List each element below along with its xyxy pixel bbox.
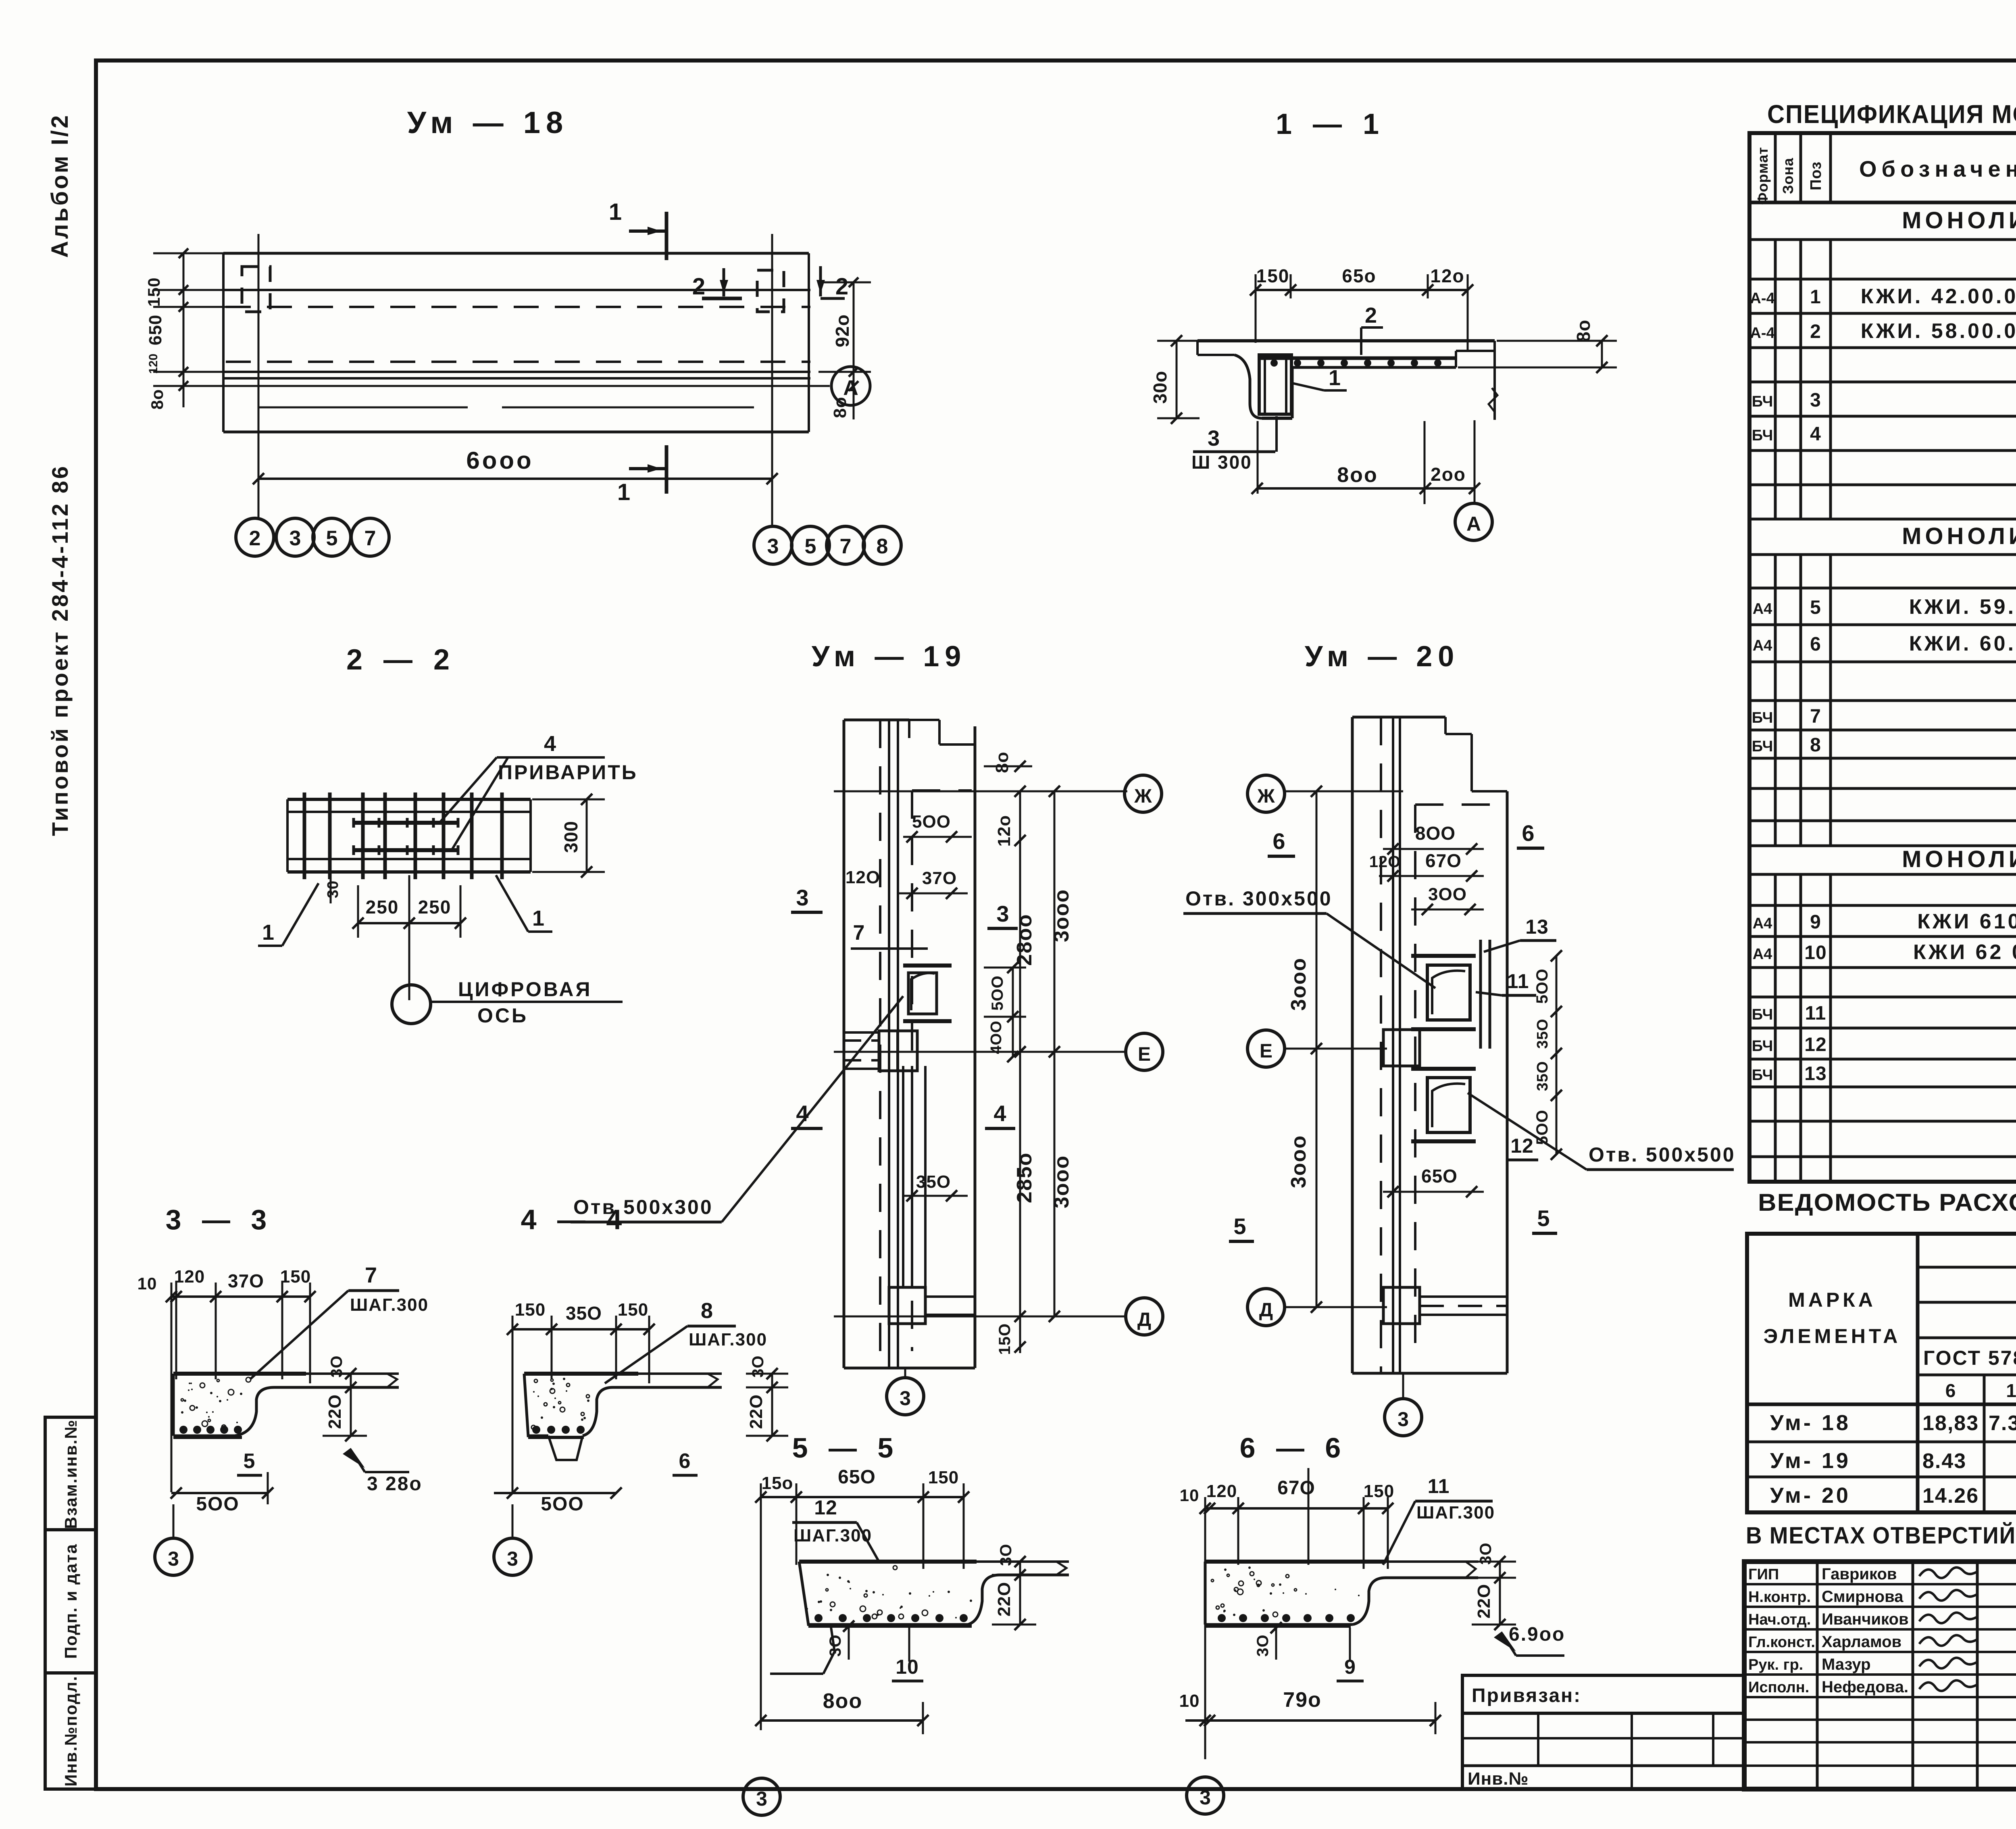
svg-text:5: 5 [1537, 1205, 1549, 1231]
svg-text:67O: 67O [1277, 1477, 1315, 1499]
svg-text:А4: А4 [1753, 915, 1772, 932]
sidebar label project 284-4-112 86 [47, 464, 73, 836]
svg-text:В МЕСТАХ ОТВЕРСТИЙ СЕТКИ ВЫР: В МЕСТАХ ОТВЕРСТИЙ СЕТКИ ВЫРЕЗАТЬ. [1746, 1522, 2016, 1549]
svg-text:8: 8 [701, 1299, 713, 1323]
dims 800 200 [1252, 420, 1480, 504]
otv 300x500 label [1183, 887, 1435, 988]
section mark 2 right [816, 266, 848, 300]
svg-text:8OO: 8OO [1415, 823, 1456, 844]
svg-text:67O: 67O [1425, 850, 1462, 871]
svg-text:8: 8 [877, 535, 888, 558]
signatures squiggles [1919, 1567, 1978, 1691]
cage labels 1 [258, 883, 319, 946]
svg-text:ВЕДОМОСТЬ РАСХОДА СТАЛИ Н: ВЕДОМОСТЬ РАСХОДА СТАЛИ НА ЭЛЕМЕНТ, КГ. [1758, 1189, 2016, 1216]
svg-text:Привязан:: Привязан: [1472, 1685, 1581, 1706]
svg-text:ЭЛЕМЕНТА: ЭЛЕМЕНТА [1764, 1325, 1901, 1347]
dims 30 220 s33 [323, 1355, 367, 1441]
svg-text:150: 150 [1256, 265, 1290, 286]
opening 300x500 [1411, 940, 1490, 1049]
svg-text:8oo: 8oo [823, 1689, 862, 1713]
svg-text:Обозначение: Обозначение [1859, 156, 2016, 181]
dimension 6000 [253, 447, 778, 484]
dim 800 s55 [755, 1689, 929, 1734]
svg-text:3: 3 [1397, 1408, 1409, 1431]
svg-text:Исполн.: Исполн. [1748, 1679, 1809, 1696]
svg-text:3ooo: 3ooo [1287, 1135, 1310, 1188]
svg-text:5 — 5: 5 — 5 [792, 1432, 900, 1464]
svg-text:А: А [1466, 513, 1481, 535]
cage outline 2-2 [287, 799, 531, 872]
otv 500x500 label [1468, 1093, 1736, 1170]
svg-text:30: 30 [325, 880, 342, 898]
slab 6-6 fill [1211, 1566, 1360, 1622]
section labels 5 [1229, 1205, 1557, 1241]
axis circle s66 [1187, 1730, 1224, 1814]
label 5 s33 [237, 1449, 262, 1475]
svg-text:10: 10 [896, 1656, 919, 1678]
svg-text:БЧ: БЧ [1752, 738, 1773, 755]
svg-text:ЦИФРОВАЯ: ЦИФРОВАЯ [458, 978, 592, 1001]
spec row pos 8 [1752, 733, 2016, 756]
axis line 2 vertical [258, 234, 260, 518]
svg-text:2 — 2: 2 — 2 [346, 644, 456, 676]
wall Um-19 outline [844, 720, 975, 1368]
steel row Ум- 20 [1770, 1483, 2016, 1508]
svg-text:1: 1 [1810, 286, 1821, 308]
label 11 [1476, 970, 1536, 995]
svg-text:5OO: 5OO [1533, 968, 1551, 1003]
svg-text:6: 6 [1272, 828, 1285, 854]
svg-text:БЧ: БЧ [1752, 1038, 1773, 1055]
svg-text:120: 120 [1206, 1481, 1237, 1501]
svg-text:Е: Е [1260, 1041, 1272, 1062]
spec row pos 1 [1750, 285, 2016, 308]
svg-text:Д: Д [1259, 1299, 1273, 1321]
svg-text:7: 7 [365, 1263, 377, 1287]
svg-text:КЖИ 62 00 0: КЖИ 62 00 0 [1913, 941, 2016, 964]
svg-text:1: 1 [532, 906, 544, 930]
title 1-1 [1276, 108, 1385, 140]
svg-text:МОНОЛИТНЫЙ УЧАСТОК УМ-19: МОНОЛИТНЫЙ УЧАСТОК УМ-19 [1902, 523, 2016, 549]
svg-text:3: 3 [1200, 1786, 1211, 1809]
svg-text:Харламов: Харламов [1822, 1633, 1901, 1651]
svg-text:3 28o: 3 28o [367, 1473, 423, 1495]
svg-text:120: 120 [147, 354, 160, 374]
svg-text:2: 2 [1810, 321, 1821, 342]
svg-text:3ooo: 3ooo [1050, 1155, 1073, 1208]
svg-text:ГИП: ГИП [1748, 1566, 1779, 1583]
cage bars 2-2 [304, 792, 502, 879]
spec row pos 11 [1752, 1003, 2016, 1024]
title 4-4 [521, 1204, 629, 1235]
svg-text:А4: А4 [1753, 946, 1772, 963]
svg-text:7: 7 [1810, 706, 1821, 727]
svg-text:Инв.№: Инв.№ [1468, 1769, 1529, 1789]
svg-text:3: 3 [996, 901, 1009, 926]
svg-text:7: 7 [840, 535, 852, 558]
svg-text:2: 2 [692, 273, 705, 300]
svg-text:5: 5 [805, 535, 816, 558]
svg-text:МОНОЛИТНЫЙ УЧАСТОК УМ-20: МОНОЛИТНЫЙ УЧАСТОК УМ-20 [1902, 846, 2016, 872]
spec header labels [1754, 147, 2016, 205]
label 7 shag300 s33 [250, 1263, 429, 1379]
label 10 s55 [892, 1626, 923, 1681]
svg-text:Зона: Зона [1780, 158, 1796, 194]
svg-text:МОНОЛИТНЫЙ УЧАСТОК УМ-18: МОНОЛИТНЫЙ УЧАСТОК УМ-18 [1902, 207, 2016, 234]
svg-text:КЖИ 6100 0: КЖИ 6100 0 [1917, 910, 2016, 933]
svg-text:8.43: 8.43 [1922, 1449, 1966, 1473]
svg-text:Рук. гр.: Рук. гр. [1748, 1656, 1803, 1673]
svg-text:ОСЬ: ОСЬ [477, 1004, 528, 1027]
svg-text:15O: 15O [996, 1323, 1014, 1355]
svg-text:150: 150 [618, 1300, 648, 1320]
svg-text:150: 150 [280, 1267, 311, 1287]
left dimension chain [144, 248, 226, 410]
title 6-6 [1240, 1432, 1347, 1464]
svg-text:3: 3 [289, 527, 301, 550]
svg-text:Мазур: Мазур [1822, 1656, 1871, 1673]
svg-text:12O: 12O [1369, 853, 1401, 871]
svg-text:4: 4 [1810, 423, 1821, 445]
axis D [834, 1298, 1163, 1335]
svg-text:4: 4 [993, 1101, 1006, 1126]
title 3-3 [166, 1204, 273, 1235]
svg-text:7.38: 7.38 [1989, 1412, 2016, 1435]
svg-text:6ooo: 6ooo [466, 447, 533, 474]
svg-text:3: 3 [796, 885, 808, 910]
svg-text:3: 3 [507, 1547, 518, 1570]
svg-text:БЧ: БЧ [1752, 709, 1773, 726]
svg-text:285o: 285o [1013, 1152, 1036, 1203]
svg-text:3O: 3O [997, 1543, 1015, 1566]
dims 500 350 350 500 [1533, 950, 1562, 1160]
section labels 6 [1268, 820, 1544, 856]
dashed opening right [757, 270, 784, 312]
svg-text:150: 150 [928, 1468, 959, 1487]
svg-text:12: 12 [1804, 1034, 1826, 1055]
svg-text:3O: 3O [827, 1634, 844, 1656]
spec table title [1767, 100, 2016, 129]
svg-text:Альбом I/2: Альбом I/2 [47, 113, 73, 258]
svg-text:БЧ: БЧ [1752, 1006, 1773, 1023]
svg-text:12: 12 [1510, 1135, 1534, 1157]
dim 500 s44 [494, 1487, 622, 1515]
svg-text:3: 3 [900, 1387, 911, 1410]
slab 5-5 fill [806, 1566, 972, 1622]
dim 300 cage [532, 794, 605, 878]
svg-text:65O: 65O [1421, 1166, 1458, 1187]
svg-text:10: 10 [1804, 942, 1826, 964]
spec row pos 6 [1753, 632, 2016, 655]
dims 30 220 s66 [1472, 1542, 1516, 1630]
section labels 4 [791, 1101, 1015, 1128]
level 3280 s33 [343, 1448, 423, 1495]
block at D axis um20 [1383, 1287, 1507, 1324]
svg-text:4OO: 4OO [988, 1020, 1005, 1054]
svg-text:ШАГ.300: ШАГ.300 [350, 1295, 429, 1315]
svg-text:Взам.инв.№: Взам.инв.№ [61, 1419, 80, 1529]
title 2-2 [346, 644, 456, 676]
svg-text:1: 1 [1329, 366, 1341, 390]
dims 800 670 300 [1369, 823, 1484, 915]
spec row t18 [1902, 207, 2016, 234]
section mark 2 left [692, 268, 742, 300]
svg-text:ШАГ.300: ШАГ.300 [1416, 1503, 1495, 1522]
inner dashed edge [912, 790, 972, 1351]
bottom axis circle 3 um19 [887, 1368, 924, 1415]
svg-text:5: 5 [244, 1449, 255, 1473]
svg-text:КЖИ. 60.00.0: КЖИ. 60.00.0 [1909, 632, 2016, 655]
svg-text:Отв. 300х500: Отв. 300х500 [1185, 887, 1333, 910]
spec row t20 [1902, 846, 2016, 872]
svg-text:3O: 3O [1477, 1542, 1495, 1564]
axis circle A s11 [1455, 488, 1492, 540]
svg-text:13: 13 [1804, 1063, 1826, 1084]
spec row pos 10 [1753, 941, 2016, 964]
svg-text:Д: Д [1137, 1309, 1151, 1331]
svg-text:Нефедова.: Нефедова. [1822, 1678, 1908, 1696]
label 2 [1361, 303, 1383, 355]
svg-text:11: 11 [1507, 970, 1529, 993]
svg-text:22O: 22O [746, 1394, 766, 1429]
svg-text:Ум — 20: Ум — 20 [1305, 640, 1460, 673]
svg-text:12O: 12O [846, 868, 880, 887]
dim 150 [996, 1316, 1026, 1355]
svg-text:Ж: Ж [1134, 786, 1152, 807]
label 7 [851, 921, 928, 949]
axis Zh [834, 775, 1162, 812]
section 1-1 slab outline [1198, 341, 1497, 420]
spec row pos 9 [1753, 910, 2016, 933]
spec row pos 7 [1752, 706, 2016, 727]
svg-text:92o: 92o [832, 314, 853, 347]
svg-text:4 — 4: 4 — 4 [521, 1204, 629, 1235]
svg-text:65O: 65O [838, 1466, 876, 1488]
title Um-18 [407, 106, 569, 140]
axis line 3 vertical right [771, 234, 773, 526]
dims 150 650 150 s55 [755, 1466, 969, 1730]
axis circle s33 [155, 1504, 192, 1575]
svg-text:4: 4 [544, 732, 556, 756]
svg-text:А4: А4 [1753, 601, 1772, 617]
svg-text:5: 5 [1810, 597, 1821, 618]
svg-text:8o: 8o [992, 751, 1012, 773]
label 8 shag300 s44 [605, 1299, 767, 1383]
steel row Ум- 18 [1770, 1411, 2016, 1435]
svg-text:6.9oo: 6.9oo [1509, 1624, 1565, 1645]
svg-text:Ш 300: Ш 300 [1191, 452, 1252, 473]
svg-text:35O: 35O [916, 1172, 951, 1192]
svg-text:КЖИ. 59.00.0: КЖИ. 59.00.0 [1909, 595, 2016, 619]
dims 30 220 s44 [746, 1355, 788, 1441]
svg-text:А-4: А-4 [1750, 325, 1774, 342]
svg-text:8o: 8o [1573, 319, 1594, 342]
label 9 s66 [1337, 1628, 1364, 1681]
svg-text:3O: 3O [1254, 1634, 1272, 1656]
spec row pos 5 [1753, 595, 2016, 619]
axis line A [173, 367, 870, 405]
right dimension chain [818, 277, 871, 419]
svg-text:13: 13 [1525, 916, 1549, 938]
svg-text:12: 12 [814, 1496, 837, 1519]
axis D um20 [1248, 1289, 1387, 1326]
svg-text:150: 150 [1364, 1481, 1394, 1501]
spec table grid [1749, 133, 2016, 1182]
spec row pos 4 [1752, 423, 2016, 445]
wall bars below E [903, 1066, 925, 1287]
title Um-19 [812, 640, 967, 673]
svg-text:35O: 35O [566, 1303, 602, 1324]
binding box [1462, 1675, 1744, 1789]
svg-text:35O: 35O [1534, 1019, 1551, 1049]
dim 500 s33 [171, 1472, 273, 1515]
svg-text:Смирнова: Смирнова [1822, 1588, 1904, 1606]
svg-text:Инв.№подл.: Инв.№подл. [61, 1675, 80, 1786]
svg-text:ГОСТ 5781-82*: ГОСТ 5781-82* [1923, 1347, 2016, 1369]
svg-text:150: 150 [144, 277, 163, 307]
svg-text:БЧ: БЧ [1752, 1067, 1773, 1084]
svg-text:2: 2 [249, 527, 261, 550]
spec row pos 12 [1752, 1032, 2016, 1056]
svg-text:КЖИ. 58.00.0: КЖИ. 58.00.0 [1861, 319, 2016, 343]
slab 4-4 fill [531, 1378, 589, 1434]
label 3 with Ш300 [1191, 416, 1277, 494]
svg-text:3ooo: 3ooo [1050, 889, 1073, 942]
section labels 3 [791, 885, 1018, 928]
svg-text:8o: 8o [830, 396, 850, 418]
svg-text:А4: А4 [1753, 637, 1772, 654]
wall Um-20 outline [1352, 717, 1507, 1373]
dims 3000 3000 [1049, 786, 1073, 1322]
svg-text:8oo: 8oo [1337, 463, 1378, 487]
svg-text:Иванчиков: Иванчиков [1822, 1610, 1909, 1628]
svg-text:3O: 3O [749, 1355, 767, 1377]
title Um-20 [1305, 640, 1460, 673]
svg-text:250: 250 [418, 897, 452, 918]
axis circles 3578 [754, 526, 901, 564]
svg-text:КЖИ. 42.00.0: КЖИ. 42.00.0 [1861, 285, 2016, 308]
dims 250 250 [325, 872, 466, 1000]
svg-text:9: 9 [1810, 911, 1821, 933]
svg-text:Ум- 19: Ум- 19 [1770, 1449, 1851, 1473]
slab 6-6 outline [1205, 1562, 1478, 1626]
svg-text:14.26: 14.26 [1922, 1484, 1979, 1508]
svg-text:8: 8 [1810, 734, 1821, 756]
steel table grid [1747, 1234, 2016, 1512]
svg-text:10: 10 [1179, 1691, 1200, 1711]
axis circle s44 [494, 1504, 531, 1575]
svg-text:БЧ: БЧ [1752, 427, 1773, 444]
svg-text:Е: Е [1138, 1044, 1151, 1065]
sidebar label Album I/2 [47, 113, 73, 258]
svg-text:3O: 3O [328, 1355, 346, 1377]
svg-text:Гавриков: Гавриков [1822, 1565, 1897, 1583]
svg-text:22O: 22O [325, 1394, 345, 1429]
svg-text:3: 3 [168, 1547, 179, 1570]
label 13 [1484, 916, 1556, 952]
axis circles 2357 [236, 518, 389, 556]
svg-text:ШАГ.300: ШАГ.300 [689, 1330, 767, 1349]
svg-text:650: 650 [146, 315, 165, 345]
spec row pos 13 [1752, 1063, 2016, 1084]
label 6 s44 [673, 1449, 698, 1475]
svg-text:3: 3 [767, 535, 779, 558]
svg-text:Ум — 19: Ум — 19 [812, 640, 967, 673]
svg-text:1: 1 [262, 920, 274, 945]
dim 80 right [1458, 319, 1617, 373]
svg-text:10: 10 [1180, 1486, 1200, 1505]
svg-text:3: 3 [756, 1787, 767, 1810]
svg-text:250: 250 [366, 897, 399, 918]
digit axis circle [392, 978, 623, 1027]
svg-text:22O: 22O [994, 1582, 1014, 1616]
steel table headers [1764, 1242, 2016, 1401]
dims 500 370 120 [846, 812, 972, 1201]
dim 650 [1383, 1166, 1484, 1197]
svg-text:28oo: 28oo [1013, 913, 1036, 966]
svg-text:5OO: 5OO [912, 812, 951, 832]
svg-text:3ooo: 3ooo [1287, 957, 1310, 1011]
rebar mesh bars [1258, 358, 1456, 367]
svg-text:Н.контр.: Н.контр. [1748, 1589, 1811, 1606]
label 12 [1507, 1135, 1538, 1160]
block at D axis [889, 1287, 975, 1324]
svg-text:Ж: Ж [1257, 786, 1275, 807]
svg-text:Ум- 20: Ум- 20 [1770, 1483, 1851, 1508]
steel table title [1758, 1189, 2016, 1216]
svg-text:120: 120 [174, 1267, 205, 1287]
svg-text:МАРКА: МАРКА [1788, 1289, 1876, 1311]
axis E [834, 1033, 1163, 1070]
svg-text:Поз: Поз [1808, 161, 1824, 190]
svg-text:1 — 1: 1 — 1 [1276, 108, 1385, 140]
svg-text:79o: 79o [1283, 1688, 1322, 1712]
svg-text:6: 6 [1522, 820, 1534, 846]
opening 500x500 [1411, 1069, 1476, 1141]
svg-text:СПЕЦИФИКАЦИЯ МОНОЛИТНЫХ УЧ: СПЕЦИФИКАЦИЯ МОНОЛИТНЫХ УЧАСТКОВ Ум-18 ÷… [1767, 100, 2016, 129]
section mark 1 bottom [617, 445, 666, 505]
svg-text:5OO: 5OO [541, 1493, 584, 1515]
svg-text:10: 10 [2006, 1380, 2016, 1401]
svg-text:А-4: А-4 [1750, 290, 1774, 307]
title 5-5 [792, 1432, 900, 1464]
svg-text:18,83: 18,83 [1922, 1412, 1979, 1435]
svg-text:Формат: Формат [1754, 147, 1771, 205]
section mark 1 top [609, 199, 666, 260]
svg-text:6 — 6: 6 — 6 [1240, 1432, 1347, 1464]
svg-text:10: 10 [137, 1274, 157, 1293]
spec row t19 [1902, 523, 2016, 549]
svg-text:30o: 30o [1150, 371, 1170, 404]
svg-text:65o: 65o [1342, 265, 1376, 286]
svg-text:11: 11 [1428, 1475, 1450, 1497]
svg-text:3: 3 [1810, 390, 1821, 411]
block at E axis [845, 1031, 917, 1071]
svg-text:5: 5 [326, 527, 338, 550]
svg-text:2: 2 [835, 273, 848, 300]
slab 4-4 outline [524, 1374, 722, 1460]
dims 500 400 [984, 962, 1026, 1062]
bottom axis circle 3 um20 [1385, 1373, 1422, 1436]
svg-text:15o: 15o [762, 1473, 793, 1493]
dims 10 120 370 150 s33 [137, 1267, 316, 1492]
svg-text:Ум — 18: Ум — 18 [407, 106, 569, 140]
axis E um20 [1248, 1030, 1387, 1067]
steel row Ум- 19 [1770, 1449, 2016, 1473]
axis circle s55 [743, 1778, 780, 1815]
svg-text:5: 5 [1233, 1214, 1246, 1239]
svg-text:35O: 35O [1534, 1061, 1551, 1091]
